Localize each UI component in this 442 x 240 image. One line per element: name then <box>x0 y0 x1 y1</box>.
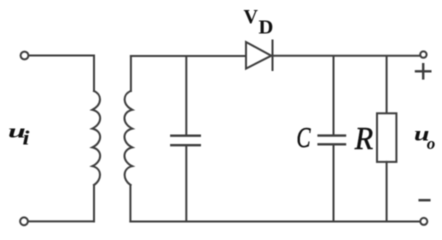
terminal bottom-right output <box>420 218 427 225</box>
label R <box>354 120 373 156</box>
wire primary top vertical <box>93 56 95 92</box>
label V_D <box>244 6 274 39</box>
wire secondary top vertical <box>130 56 132 91</box>
svg-text:R: R <box>354 120 373 156</box>
wire bottom rail <box>130 221 420 223</box>
wire secondary bottom vertical <box>129 185 131 222</box>
terminal top-right output <box>420 51 426 57</box>
svg-text:i: i <box>23 127 31 149</box>
diode VD cathode bar <box>272 41 274 71</box>
capacitor C top lead <box>333 56 335 135</box>
label C <box>297 123 311 154</box>
svg-text:C: C <box>297 123 311 154</box>
label u_o <box>414 122 435 152</box>
inductor secondary winding <box>124 91 132 185</box>
wire primary bottom vertical <box>93 185 95 221</box>
wire top-left horizontal <box>29 55 94 57</box>
label u_i <box>8 121 30 149</box>
diode VD triangle <box>246 42 271 69</box>
inductor primary winding <box>92 91 100 185</box>
capacitor filter plates <box>171 136 200 146</box>
wire top rail left of diode <box>131 55 246 57</box>
svg-text:D: D <box>259 17 274 39</box>
svg-text:V: V <box>244 6 259 28</box>
capacitor filter bottom lead <box>185 146 187 222</box>
terminal bottom-left input <box>20 217 28 225</box>
wire bottom-left horizontal <box>29 220 95 222</box>
plus sign <box>416 64 430 78</box>
capacitor C bottom lead <box>333 145 335 222</box>
resistor R bottom lead <box>386 162 388 222</box>
minus sign <box>420 199 430 202</box>
terminal top-left input <box>21 52 29 60</box>
capacitor C plates <box>319 136 345 145</box>
resistor R body <box>377 113 396 162</box>
resistor R top lead <box>386 56 388 113</box>
wire top rail right of diode <box>273 55 421 57</box>
capacitor filter (unlabeled) top lead <box>185 56 187 135</box>
svg-text:o: o <box>427 134 436 153</box>
